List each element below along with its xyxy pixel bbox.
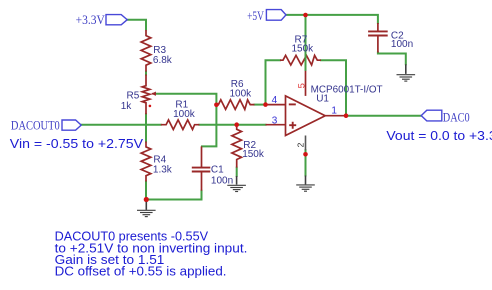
- svg-text:6.8k: 6.8k: [153, 55, 173, 66]
- svg-text:100n: 100n: [391, 39, 413, 50]
- svg-text:Vin = -0.55 to +2.75V: Vin = -0.55 to +2.75V: [10, 136, 143, 151]
- svg-text:100k: 100k: [173, 109, 196, 120]
- svg-text:1k: 1k: [121, 101, 133, 112]
- svg-text:150k: 150k: [242, 149, 265, 160]
- svg-text:DC offset of +0.55 is applied.: DC offset of +0.55 is applied.: [55, 264, 227, 279]
- svg-text:+3.3V: +3.3V: [76, 13, 105, 27]
- svg-text:1.3k: 1.3k: [153, 164, 173, 175]
- svg-text:5: 5: [296, 83, 307, 88]
- svg-text:Vout = 0.0 to +3.3V: Vout = 0.0 to +3.3V: [386, 128, 492, 143]
- svg-text:100n: 100n: [211, 175, 233, 186]
- svg-text:1: 1: [331, 106, 337, 117]
- svg-text:2: 2: [295, 142, 305, 147]
- svg-text:U1: U1: [316, 94, 329, 105]
- svg-text:100k: 100k: [230, 89, 253, 100]
- svg-text:4: 4: [272, 95, 278, 106]
- svg-text:DAC0: DAC0: [443, 110, 470, 124]
- svg-text:+5V: +5V: [247, 9, 264, 23]
- svg-text:DACOUT0: DACOUT0: [11, 118, 60, 132]
- svg-text:C1: C1: [211, 165, 224, 176]
- svg-text:150k: 150k: [292, 44, 315, 55]
- svg-text:3: 3: [272, 115, 278, 126]
